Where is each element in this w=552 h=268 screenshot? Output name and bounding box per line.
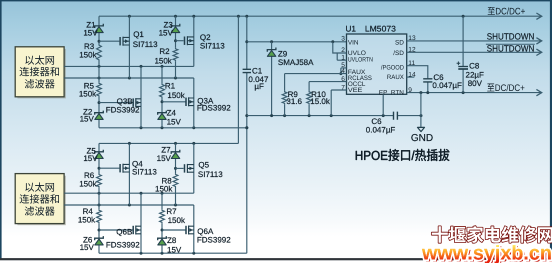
wire: column x175.5 top (Z3/R2) [174,16,177,78]
wire: Q1 drain-source column [128,16,130,78]
capacitor C6 0.047uF (series, bottom) [366,112,398,135]
svg-text:15V: 15V [167,245,182,254]
capacitor C1 0.047uF [243,66,269,91]
svg-text:FDS3992: FDS3992 [106,240,140,249]
wire: long vertical from top rail to lower section rail [237,16,239,143]
pin 5 number [341,62,345,69]
wire: RTN to GND [420,93,422,128]
wire: C8 column [462,16,464,92]
svg-text:/PGOOD: /PGOOD [381,65,404,72]
wire: pin7 VEE to VEE rail [331,90,346,116]
pin 13 number [408,35,416,42]
svg-text:www.syjxb.cn: www.syjxb.cn [421,242,552,263]
resistor R1 150k [160,82,186,100]
zener Z3 15V [159,20,180,37]
wire: lower section bottom rail [99,252,247,255]
svg-text:150k: 150k [79,51,97,60]
svg-text:SI7113: SI7113 [133,40,158,49]
svg-text:150k: 150k [154,56,172,65]
wire: Q6A gate lead [162,229,186,231]
svg-text:15V: 15V [80,115,95,124]
svg-text:RAUX: RAUX [387,74,405,81]
svg-text:0.047µF: 0.047µF [432,81,462,90]
wire B2: lower pair output (bottom box) [64,204,194,207]
zener Z1 15V [83,20,103,37]
pin 1 number [341,55,345,62]
ground [411,127,433,143]
svg-text:150k: 150k [79,90,97,99]
svg-text:31.6: 31.6 [286,97,302,106]
wire: VEE rail [247,114,423,117]
diode Z9 SMAJ58A [267,48,314,67]
svg-text:SD: SD [395,39,404,46]
svg-text:Q6B: Q6B [116,228,132,237]
wire: Q6B drain-source column [140,193,142,253]
svg-text:150k: 150k [167,91,185,100]
wire A: upper pair output (top box) [64,65,194,68]
transistor Q3B FDS3992 [106,97,141,114]
svg-text:150k: 150k [79,180,97,189]
wire: pin2 UVLO tie to VIN [333,42,347,53]
wire: Q3A gate lead [162,101,186,103]
wire: column x162 (R1/Z4) [161,66,164,127]
wire: pin1 UVLORTN stub [337,53,346,60]
zener Z2 15V [80,108,104,124]
watermark [421,226,552,266]
wire: Z9 column [271,42,273,116]
zener Z4 15V [158,109,182,127]
capacitor C6 0.047uF (right) [423,73,462,90]
wire: column x162 bottom (R7/Z8) [161,193,164,253]
wire B: lower pair output (top box) [64,77,194,80]
transistor Q3A FDS3992 [186,96,231,112]
resistor R7 150k [160,207,186,225]
resistor R10 15.0k [307,82,331,116]
resistor R8 150k [155,173,178,193]
wire: EP pad to VEE rail [382,94,384,115]
pin 6 number [341,76,345,83]
svg-text:SI7113: SI7113 [132,168,157,177]
svg-text:SI7113: SI7113 [198,170,223,179]
wire: pin13 SD to SHUTDOWN [407,38,542,44]
svg-text:R1: R1 [165,82,176,91]
resistor R6 150k [79,171,101,189]
svg-text:150k: 150k [78,216,96,225]
pin 9 number [408,87,412,94]
node: 至DC/DC+ (top) [488,7,525,15]
svg-text:LM5073: LM5073 [365,25,396,34]
wire: Q3B drain-source column [140,66,142,127]
svg-text:150k: 150k [168,216,186,225]
wire: Q5 drain-source column [193,143,195,193]
label: HPOE interface / hot-swap [356,149,450,161]
node: SHUTDOWN(bar) (pin12) [486,44,535,54]
wire: pin4 RCLASS to R9 [285,73,347,75]
svg-text:RTN: RTN [391,89,404,96]
transistor Q2 SI7113 [185,33,226,50]
resistor R4 150k [78,207,102,225]
node: 至DC/DC+ (bottom) [487,84,524,92]
svg-text:SHUTDOWN: SHUTDOWN [487,32,535,42]
svg-text:15V: 15V [80,243,95,252]
svg-text:VEE: VEE [348,87,363,94]
wire: Q6A drain-source column [193,205,195,253]
svg-text:C8: C8 [469,61,480,70]
wire: Q5 gate lead [176,167,184,169]
transistor Q4 SI7113 [120,160,157,177]
svg-text:SMAJ58A: SMAJ58A [278,58,314,67]
wire: Q2 drain-source column [193,16,195,66]
wire: Q4 gate lead [99,167,119,169]
wire A2: upper pair output (bottom box) [64,192,194,195]
zener Z5 15V [83,146,103,163]
resistor R3 150k [79,42,101,61]
pin 2 number [341,47,345,54]
svg-text:SI7113: SI7113 [200,41,225,50]
svg-text:FDS3992: FDS3992 [106,105,140,114]
wire: lower section top rail [99,142,238,145]
transistor Q6A FDS3992 [186,226,231,245]
svg-text:15V: 15V [159,28,174,37]
wire: top section bottom rail [99,126,248,129]
wire: Q2 gate lead [176,40,184,42]
wire: pin6 OCCL to R10 [309,81,346,83]
wire: pin12 /SD to SHUTDOWN [407,49,542,55]
transistor Q5 SI7113 [185,161,224,179]
node: SHUTDOWN (pin13) [487,32,535,42]
zener Z8 15V [158,236,182,254]
wire: pin5 FAUX stub [339,68,346,75]
wire: Q1 gate lead [99,40,119,42]
svg-text:15V: 15V [167,118,182,127]
resistor R9 31.6 [282,74,302,116]
resistor R5 150k [79,82,102,99]
resistor R2 150k [154,47,177,65]
svg-text:FDS3992: FDS3992 [197,104,231,113]
svg-text:GND: GND [411,133,433,144]
wire: pin9 RTN to DC/DC+ (bottom) [407,89,542,95]
wire: column x175.5 bottom (Z7/R8) [174,143,177,205]
wire: VIN net (C1 to pin3) [247,40,347,43]
svg-text:U1: U1 [346,25,357,34]
svg-text:/SD: /SD [393,50,404,57]
svg-text:80V: 80V [468,79,483,88]
pin 7 number [341,84,345,91]
op-amp/controller U1 LM5073 [346,25,407,97]
svg-text:Q5: Q5 [198,161,209,170]
svg-text:Q1: Q1 [133,30,144,39]
svg-text:VIN: VIN [348,39,359,46]
capacitor C8 22uF 80V [457,61,484,88]
block: Ethernet connector & filter (bottom) [15,174,66,226]
pin 3 number [341,35,345,42]
svg-text:R4: R4 [83,207,94,216]
wire: Q4 drain-source column [128,143,130,205]
transistor Q6B FDS3992 [106,226,141,250]
svg-text:3: 3 [341,35,345,42]
pin 11 number [408,60,415,67]
svg-text:µF: µF [254,82,264,91]
pin 14 number [408,71,416,78]
svg-text:UVLORTN: UVLORTN [348,57,373,64]
svg-text:R2: R2 [159,47,170,56]
svg-text:15V: 15V [83,154,98,163]
wire: pin11 /PGOOD to C6 [407,66,428,93]
svg-text:0.047µF: 0.047µF [366,126,396,135]
svg-text:Z4: Z4 [167,109,177,118]
wire: C1 column (top rail to lower bottom rail) [245,16,248,253]
svg-text:R7: R7 [166,207,177,216]
wire: column x99 top (Z1/R3/R5/Z2) [98,16,101,128]
svg-text:150k: 150k [155,185,173,194]
wire: pin14 RAUX stub [407,76,415,78]
svg-text:Z8: Z8 [167,236,177,245]
block: Ethernet connector & filter (top) [15,47,66,99]
svg-text:FDS3992: FDS3992 [197,235,231,244]
pin 12 number [408,46,416,53]
pin 4 number [341,68,345,75]
svg-text:SHUTDOWN: SHUTDOWN [487,44,535,54]
transistor Q1 SI7113 [120,30,158,49]
zener Z7 15V [157,146,180,164]
zener Z6 15V [80,236,104,252]
svg-text:15V: 15V [83,28,98,37]
wire: column x99 bottom (Z5/R6/R4/Z6) [98,143,101,253]
wire: Q3A drain-source column [193,78,195,128]
wire: Q6B gate lead [99,229,133,231]
wire: Q3B gate lead [99,102,133,104]
wire: top positive rail to DC/DC+ [99,13,542,19]
svg-text:15.0k: 15.0k [310,97,331,106]
svg-text:15V: 15V [157,154,172,163]
